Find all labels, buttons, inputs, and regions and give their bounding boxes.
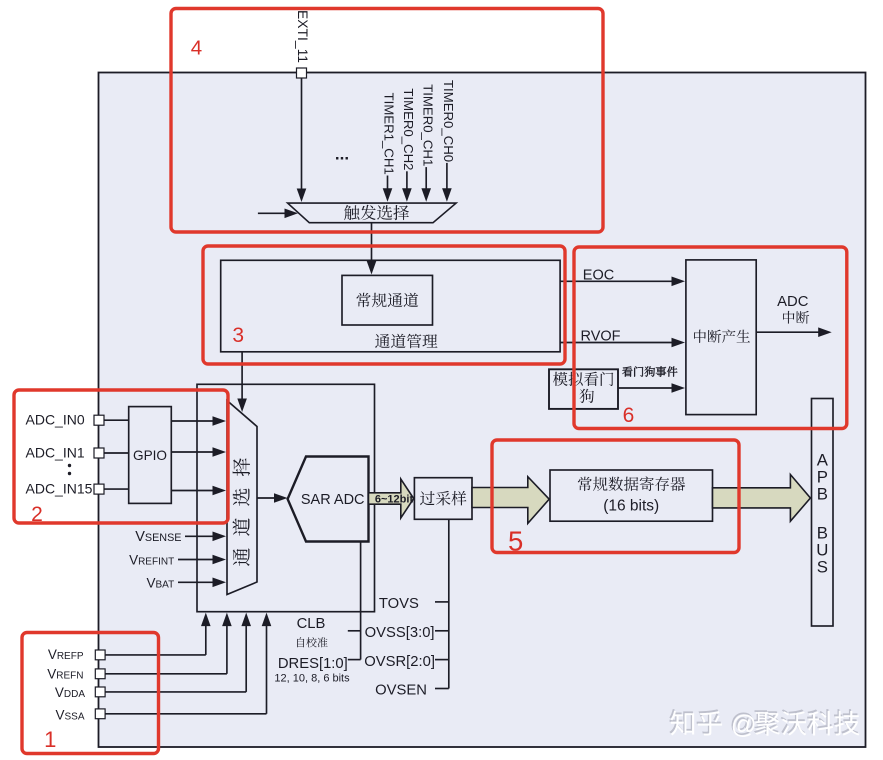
svg-text:TOVS: TOVS — [379, 596, 419, 612]
svg-text:ADC: ADC — [777, 294, 809, 310]
svg-text:OVSS[3:0]: OVSS[3:0] — [365, 625, 435, 641]
svg-text:@: @ — [731, 711, 757, 739]
svg-text:1: 1 — [44, 727, 56, 752]
svg-text:TIMER0_CH2: TIMER0_CH2 — [401, 88, 416, 170]
svg-text:ADC_IN15: ADC_IN15 — [26, 481, 93, 497]
svg-text:ADC_IN0: ADC_IN0 — [26, 412, 85, 428]
svg-text:3: 3 — [232, 324, 244, 347]
svg-text:TIMER0_CH1: TIMER0_CH1 — [420, 84, 435, 166]
svg-text:DRES[1:0]: DRES[1:0] — [278, 656, 348, 672]
svg-text:CLB: CLB — [297, 616, 326, 632]
svg-text:ADC_IN1: ADC_IN1 — [26, 445, 85, 461]
svg-text:5: 5 — [508, 525, 523, 556]
svg-text:(16 bits): (16 bits) — [603, 498, 659, 515]
svg-text:OVSR[2:0]: OVSR[2:0] — [364, 654, 435, 670]
svg-text:RVOF: RVOF — [580, 329, 620, 345]
svg-text:VSENSE: VSENSE — [135, 529, 181, 545]
svg-text:12, 10, 8, 6 bits: 12, 10, 8, 6 bits — [274, 673, 350, 685]
svg-text:SAR ADC: SAR ADC — [301, 492, 365, 508]
svg-text:6: 6 — [623, 404, 635, 427]
svg-text:OVSEN: OVSEN — [375, 683, 427, 699]
svg-text:4: 4 — [191, 37, 202, 60]
svg-text:EOC: EOC — [583, 268, 614, 284]
svg-text:TIMER1_CH1: TIMER1_CH1 — [382, 93, 397, 175]
svg-text:EXTI_11: EXTI_11 — [295, 10, 311, 63]
svg-text:S: S — [817, 558, 828, 577]
svg-text:...: ... — [335, 145, 349, 164]
svg-text:B: B — [817, 484, 828, 503]
svg-text:2: 2 — [31, 503, 43, 526]
svg-text:6~12bit: 6~12bit — [375, 493, 414, 505]
svg-text:GPIO: GPIO — [133, 448, 167, 463]
svg-text:TIMER0_CH0: TIMER0_CH0 — [441, 80, 456, 162]
